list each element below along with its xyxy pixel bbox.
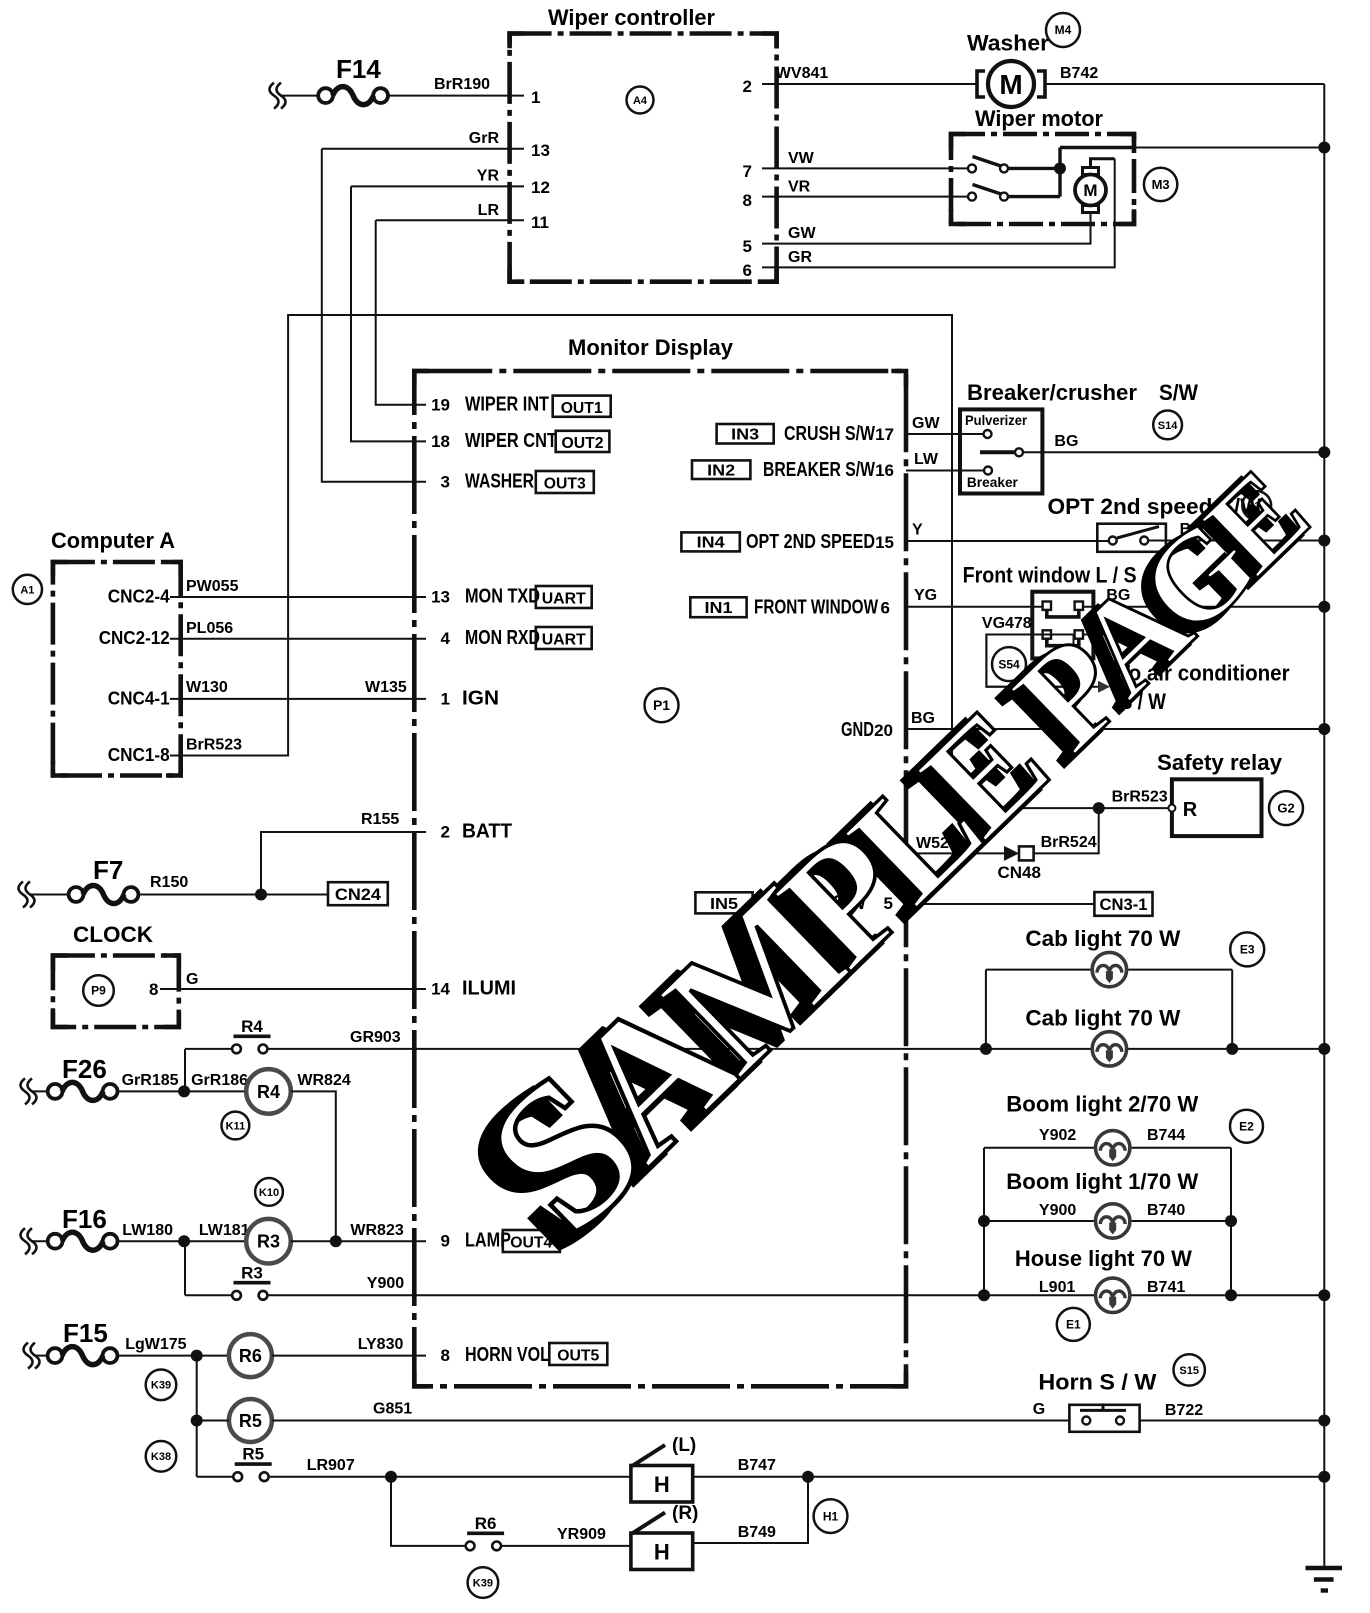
junction front window branch — [1161, 601, 1173, 613]
pin 20 GND — [841, 719, 893, 741]
junction LR907 — [385, 1471, 397, 1483]
svg-text:Cab light 70 W: Cab light 70 W — [1025, 926, 1180, 951]
svg-text:UART: UART — [542, 632, 586, 649]
terminal box UART txd — [536, 586, 592, 608]
wire wiper motor to trunk — [1134, 147, 1324, 149]
svg-text:IGN: IGN — [462, 687, 499, 709]
junction trunk front window — [1318, 601, 1330, 613]
svg-text:OUT5: OUT5 — [557, 1348, 599, 1365]
pin 9 LAMP — [441, 1230, 511, 1252]
wiper motor switch lower contacts — [968, 185, 1008, 201]
svg-text:G2: G2 — [1277, 801, 1294, 816]
svg-text:7: 7 — [743, 162, 752, 181]
svg-text:R6: R6 — [239, 1346, 262, 1366]
relay R3 — [246, 1219, 291, 1264]
svg-text:K10: K10 — [259, 1187, 279, 1199]
lamp cab light lower — [1092, 1032, 1126, 1066]
svg-text:K11: K11 — [226, 1120, 246, 1132]
wire BG gnd to trunk — [906, 728, 1324, 730]
wiper controller box A4 — [510, 34, 777, 282]
relay contact R3 — [232, 1263, 270, 1299]
svg-text:Boom light 1/70 W: Boom light 1/70 W — [1006, 1169, 1198, 1194]
designator circle K38 — [146, 1441, 177, 1472]
svg-text:Pulverizer: Pulverizer — [965, 412, 1027, 428]
wire boom light 1 — [984, 1220, 1231, 1222]
svg-text:B740: B740 — [1147, 1202, 1185, 1219]
cab light rails — [986, 970, 1232, 1049]
wire wiper switch common — [1008, 148, 1134, 197]
junction trunk gnd — [1318, 723, 1330, 735]
svg-text:2: 2 — [743, 77, 752, 96]
terminal box OUT4 — [503, 1230, 560, 1252]
designator circle K39 lower — [468, 1567, 499, 1598]
svg-text:LgW175: LgW175 — [125, 1336, 186, 1353]
wire G851 R5 to horn switch — [272, 1420, 1070, 1422]
svg-text:Y900: Y900 — [1039, 1202, 1076, 1219]
svg-text:LW181: LW181 — [199, 1222, 250, 1239]
svg-text:15: 15 — [875, 533, 894, 552]
svg-text:R3: R3 — [257, 1232, 280, 1252]
wire R5 feed — [197, 1420, 229, 1422]
wire WR824 R4 to WR823 node — [291, 1091, 336, 1241]
svg-text:(R): (R) — [672, 1503, 698, 1524]
svg-text:13: 13 — [531, 141, 550, 160]
svg-text:W135: W135 — [365, 679, 407, 696]
wire LgW525 HOUR to diode — [906, 852, 1004, 854]
svg-text:6: 6 — [881, 599, 890, 618]
pin 3 WASHER — [441, 470, 535, 492]
junction cab rail right — [1226, 1043, 1238, 1055]
svg-text:S14: S14 — [1158, 420, 1178, 432]
svg-text:GND: GND — [841, 719, 874, 741]
wire PW055 CNC2-4 to MON TXD — [170, 596, 426, 598]
svg-text:YR909: YR909 — [557, 1526, 606, 1543]
svg-text:14: 14 — [431, 980, 450, 999]
wire BrR523 CNC1-8 to safety relay — [170, 315, 1168, 808]
svg-text:S/W: S/W — [1159, 380, 1198, 405]
svg-text:OUT1: OUT1 — [561, 400, 603, 417]
junction boom rail left — [978, 1215, 990, 1227]
svg-text:CNC1-8: CNC1-8 — [108, 745, 170, 765]
wire YR vertical to monitor pin 18 — [351, 186, 426, 441]
svg-text:R4: R4 — [257, 1082, 280, 1102]
svg-text:(L): (L) — [672, 1435, 696, 1456]
pin 13 MON TXD — [431, 586, 540, 608]
svg-text:R5: R5 — [239, 1411, 262, 1431]
svg-text:8: 8 — [743, 191, 752, 210]
relay R5 — [229, 1399, 272, 1442]
svg-text:WR823: WR823 — [350, 1222, 403, 1239]
junction house rail left — [978, 1289, 990, 1301]
svg-text:YR: YR — [477, 168, 500, 185]
svg-text:Y900: Y900 — [367, 1275, 404, 1292]
svg-text:GrR: GrR — [469, 130, 500, 147]
svg-text:3: 3 — [441, 472, 450, 491]
svg-text:M4: M4 — [1055, 23, 1072, 37]
diode CN48 — [1004, 846, 1034, 861]
svg-text:WR824: WR824 — [297, 1072, 350, 1089]
svg-text:IN2: IN2 — [707, 463, 735, 480]
svg-text:M: M — [1083, 181, 1097, 200]
wire GrR pin 13 — [322, 148, 524, 150]
svg-text:K39: K39 — [151, 1380, 171, 1392]
wire Y opt to switch — [906, 540, 1109, 542]
svg-text:OUT3: OUT3 — [544, 476, 586, 493]
wire LR907 R5 contact to horn L — [269, 1476, 631, 1478]
svg-text:UART: UART — [542, 591, 586, 608]
svg-text:F7: F7 — [93, 855, 123, 885]
svg-text:8: 8 — [441, 1346, 450, 1365]
svg-text:G: G — [1033, 1401, 1045, 1418]
svg-text:WASHER: WASHER — [465, 470, 534, 492]
svg-text:H: H — [654, 1540, 670, 1565]
pin 1 IGN — [441, 687, 499, 709]
svg-text:18: 18 — [431, 432, 450, 451]
wire F15 vertical — [196, 1356, 198, 1477]
svg-text:R5: R5 — [242, 1445, 264, 1464]
svg-text:HORN VOL: HORN VOL — [465, 1344, 550, 1366]
svg-text:LW180: LW180 — [122, 1222, 173, 1239]
computer A box — [53, 562, 181, 776]
connector CN3-1 — [1094, 892, 1152, 916]
terminal box OUT3 — [536, 471, 594, 493]
designator circle S15 horn — [1174, 1354, 1205, 1385]
designator circle S54 — [992, 647, 1026, 681]
wire YR pin 12 — [351, 185, 524, 187]
terminal box OUT5 — [549, 1343, 607, 1365]
svg-text:Washer: Washer — [967, 31, 1049, 56]
svg-text:P1: P1 — [653, 697, 670, 713]
horn H (L) — [631, 1435, 696, 1502]
junction boom rail right — [1225, 1215, 1237, 1227]
svg-text:S15: S15 — [1179, 1365, 1199, 1377]
wire GrR185 — [117, 1090, 246, 1092]
svg-text:1: 1 — [531, 88, 540, 107]
clock box P9 — [53, 956, 179, 1028]
designator circle M4 — [1046, 13, 1080, 47]
svg-text:House light 70 W: House light 70 W — [1015, 1246, 1192, 1271]
pin 18 WIPER CNT — [431, 430, 557, 452]
svg-text:LR: LR — [478, 202, 500, 219]
svg-text:12: 12 — [531, 178, 550, 197]
svg-text:CNC4-1: CNC4-1 — [108, 688, 170, 708]
designator circle E2 — [1230, 1110, 1263, 1143]
wire cab light upper — [986, 969, 1232, 971]
fuse F7 — [19, 855, 139, 908]
svg-text:Wiper controller: Wiper controller — [548, 5, 715, 30]
svg-text:Breaker/crusher: Breaker/crusher — [967, 380, 1137, 405]
wire motor top lead — [1091, 159, 1115, 168]
wire GR pin 6 to wiper motor — [762, 159, 1115, 268]
junction wiper motor — [1054, 162, 1066, 174]
pin 17 CRUSH SW — [784, 423, 894, 445]
svg-text:PL056: PL056 — [186, 620, 233, 637]
svg-text:L901: L901 — [1039, 1279, 1076, 1296]
front window limit switch box — [1032, 592, 1093, 659]
wire W130 W135 CNC4-1 to IGN — [170, 698, 426, 700]
arrow to air conditioner — [1098, 681, 1110, 693]
wire VW update to CN3-1 — [906, 903, 1094, 905]
svg-text:WV841: WV841 — [776, 65, 829, 82]
watermark SAMPLE PAGE — [427, 388, 1348, 1290]
wire opt switch to trunk — [1148, 540, 1324, 542]
svg-text:CRUSH S/W: CRUSH S/W — [784, 423, 875, 445]
svg-text:CNC2-12: CNC2-12 — [99, 628, 170, 648]
relay R4 — [246, 1069, 291, 1114]
svg-text:IN3: IN3 — [731, 427, 759, 444]
horn H (R) — [631, 1503, 698, 1570]
svg-text:K38: K38 — [151, 1451, 171, 1463]
junction trunk breaker — [1318, 446, 1330, 458]
designator circle S15 opt — [1242, 491, 1271, 520]
svg-text:OUT2: OUT2 — [562, 435, 604, 452]
pin 8 HORN VOL — [441, 1344, 550, 1366]
junction LW181 R3 — [178, 1235, 190, 1247]
junction cab rail left — [980, 1043, 992, 1055]
wiper motor switch upper contacts — [968, 157, 1008, 173]
svg-text:Wiper motor: Wiper motor — [975, 106, 1103, 131]
lamp cab light upper — [1092, 952, 1126, 986]
terminal box IN4 — [681, 532, 739, 551]
wire R3 contact left — [185, 1294, 232, 1296]
svg-text:M3: M3 — [1152, 177, 1170, 192]
svg-text:R150: R150 — [150, 874, 188, 891]
terminal box IN3 — [717, 424, 774, 444]
wire VW pin 7 to wiper motor switch — [762, 167, 968, 169]
air conditioner switch enclosure — [986, 635, 1073, 687]
svg-text:GW: GW — [912, 415, 940, 432]
wire LW181 down to R3 contact — [184, 1241, 186, 1295]
svg-text:Computer A: Computer A — [51, 528, 175, 553]
svg-text:A1: A1 — [20, 584, 34, 596]
wire GW crush to breaker box — [906, 433, 984, 435]
boom light rails — [984, 1148, 1231, 1296]
svg-text:13: 13 — [431, 588, 450, 607]
svg-text:1: 1 — [441, 689, 450, 708]
svg-text:4: 4 — [441, 629, 451, 648]
svg-text:CLOCK: CLOCK — [73, 922, 153, 947]
connector CN24 — [328, 882, 388, 905]
svg-text:Horn S / W: Horn S / W — [1038, 1370, 1156, 1395]
junction trunk B722 — [1318, 1415, 1330, 1427]
lamp boom light 1 — [1096, 1204, 1130, 1238]
fuse F15 — [24, 1318, 118, 1369]
wire BG front window to trunk — [1083, 606, 1324, 608]
relay contact R6 — [466, 1514, 504, 1550]
svg-text:E3: E3 — [1240, 943, 1255, 957]
designator circle A4 — [627, 87, 654, 114]
junction safety relay — [1093, 802, 1105, 814]
wiper motor box M3 — [951, 134, 1134, 224]
pin 15 OPT 2ND SPEED — [746, 531, 894, 553]
pin 5 Update SW — [769, 892, 893, 914]
junction R150 R155 — [255, 889, 267, 901]
terminal box IN2 — [692, 460, 750, 479]
terminal box UART rxd — [536, 627, 592, 649]
svg-text:F15: F15 — [63, 1318, 108, 1348]
wire LR907 branch down to R6 contact — [391, 1477, 466, 1546]
svg-text:9: 9 — [441, 1232, 450, 1251]
wire LY830 R6 to HORN VOL — [272, 1355, 426, 1357]
pin 19 WIPER INT — [431, 394, 549, 416]
wire GR903 R4 contact to cab lights and trunk — [185, 1049, 1324, 1092]
wire YG front window — [906, 606, 1043, 608]
relay contact R4 — [232, 1017, 270, 1053]
svg-text:PW055: PW055 — [186, 578, 239, 595]
designator circle A1 — [13, 575, 42, 604]
svg-text:11: 11 — [531, 213, 549, 232]
svg-text:GW: GW — [788, 225, 816, 242]
junction trunk Y900 — [1318, 1289, 1330, 1301]
wire Y900 R3 contact to house light and trunk — [268, 1294, 1325, 1296]
pin 4 MON RXD — [441, 627, 540, 649]
wire LR vertical to monitor pin 19 — [376, 220, 426, 404]
svg-text:OPT 2ND SPEED: OPT 2ND SPEED — [746, 531, 875, 553]
wire B747 horn L to trunk — [693, 1476, 1325, 1478]
fuse F14 — [270, 54, 389, 109]
wire BG breaker to trunk — [1023, 451, 1324, 453]
wire front window lower to branch — [1083, 607, 1167, 635]
designator circle K10 — [255, 1178, 283, 1206]
svg-text:BREAKER S/W: BREAKER S/W — [763, 459, 875, 481]
horn switch S15 — [1069, 1403, 1139, 1431]
svg-text:2: 2 — [441, 823, 450, 842]
junction trunk opt — [1318, 535, 1330, 547]
junction B747 — [802, 1471, 814, 1483]
svg-text:LAMP: LAMP — [465, 1230, 511, 1252]
svg-text:WIPER INT: WIPER INT — [465, 394, 549, 416]
svg-text:GrR185: GrR185 — [122, 1072, 179, 1089]
junction trunk GR903 — [1318, 1043, 1330, 1055]
svg-text:R6: R6 — [475, 1514, 497, 1533]
designator circle K39 — [146, 1370, 177, 1401]
terminal box OUT1 — [553, 396, 611, 417]
relay R6 — [229, 1334, 272, 1377]
svg-text:WIPER CNT: WIPER CNT — [465, 430, 557, 452]
svg-text:Safety relay: Safety relay — [1157, 750, 1283, 775]
pin 14 ILUMI — [431, 978, 516, 1000]
svg-text:BrR523: BrR523 — [186, 737, 242, 754]
svg-text:R155: R155 — [361, 811, 399, 828]
svg-text:BATT: BATT — [462, 821, 512, 843]
svg-text:H1: H1 — [823, 1509, 839, 1523]
svg-text:FRONT WINDOW: FRONT WINDOW — [754, 597, 878, 619]
safety relay box R — [1168, 779, 1261, 836]
svg-text:YG: YG — [914, 587, 937, 604]
svg-text:GrR186: GrR186 — [191, 1072, 248, 1089]
svg-text:B749: B749 — [738, 1524, 776, 1541]
designator circle E3 — [1230, 932, 1264, 966]
wire LW breaker to breaker box — [906, 470, 984, 472]
wire WV841 pin 2 to washer motor — [762, 83, 976, 85]
svg-text:LR907: LR907 — [307, 1457, 355, 1474]
svg-text:B744: B744 — [1147, 1127, 1185, 1144]
svg-text:ILUMI: ILUMI — [462, 978, 516, 1000]
junction GrR185 R4 — [178, 1085, 190, 1097]
svg-text:MON TXD: MON TXD — [465, 586, 540, 608]
wire B749 horn R to B747 — [693, 1477, 808, 1543]
lamp house light — [1096, 1278, 1130, 1312]
ground symbol — [1306, 1568, 1343, 1591]
svg-text:16: 16 — [875, 461, 894, 480]
designator circle M3 — [1144, 168, 1177, 201]
svg-text:Breaker: Breaker — [967, 474, 1019, 490]
designator circle S14 — [1153, 411, 1182, 440]
monitor display box P1 — [414, 371, 906, 1386]
svg-text:H: H — [654, 1472, 670, 1497]
svg-text:K39: K39 — [473, 1577, 493, 1589]
opt 2nd speed switch — [1097, 524, 1166, 552]
svg-text:19: 19 — [431, 396, 450, 415]
svg-text:R3: R3 — [241, 1263, 263, 1282]
svg-text:CN3-1: CN3-1 — [1100, 895, 1148, 914]
title Breaker/crusher S/W — [967, 380, 1198, 405]
svg-text:B722: B722 — [1165, 1402, 1203, 1419]
svg-text:17: 17 — [875, 425, 894, 444]
wire PL056 CNC2-12 to MON RXD — [170, 638, 426, 640]
svg-text:B741: B741 — [1147, 1279, 1185, 1296]
svg-text:E2: E2 — [1239, 1119, 1254, 1133]
svg-text:LW: LW — [914, 451, 939, 468]
svg-text:GR903: GR903 — [350, 1029, 401, 1046]
svg-text:8: 8 — [149, 980, 158, 999]
wire VR pin 8 to wiper motor switch — [762, 196, 968, 198]
designator circle K11 — [222, 1112, 250, 1140]
svg-text:CNC2-4: CNC2-4 — [108, 587, 170, 607]
wire VG478 to air conditioner — [986, 635, 1100, 687]
wire GrR vertical to monitor pin 3 — [322, 149, 426, 482]
wire R150 F7 to CN24 — [139, 894, 328, 896]
terminal box IN1 — [690, 597, 746, 617]
svg-text:IN1: IN1 — [705, 600, 733, 617]
wire LgW175 — [117, 1355, 229, 1357]
svg-text:MON RXD: MON RXD — [465, 627, 540, 649]
svg-text:B742: B742 — [1060, 65, 1098, 82]
junction LgW175 — [191, 1350, 203, 1362]
svg-text:F14: F14 — [336, 54, 381, 84]
svg-text:G851: G851 — [373, 1401, 412, 1418]
svg-text:R4: R4 — [241, 1017, 263, 1036]
svg-text:G: G — [186, 971, 198, 988]
pin 2 BATT — [441, 821, 512, 843]
svg-text:6: 6 — [743, 261, 752, 280]
junction WR823 — [330, 1235, 342, 1247]
svg-text:R: R — [1183, 799, 1198, 821]
fuse F16 — [21, 1204, 118, 1254]
wire BrR524 branch — [1034, 808, 1099, 853]
designator circle E1 — [1057, 1308, 1090, 1341]
svg-text:F16: F16 — [62, 1204, 107, 1234]
wire G clock to ILUMI — [160, 988, 426, 990]
svg-text:B747: B747 — [738, 1457, 776, 1474]
wire LW180 — [117, 1240, 246, 1242]
svg-text:Y: Y — [912, 522, 923, 539]
wire B742 washer to right trunk — [1046, 83, 1324, 85]
wire boom light 2 — [984, 1147, 1231, 1149]
svg-text:LY830: LY830 — [358, 1336, 404, 1353]
junction house rail right — [1225, 1289, 1237, 1301]
breaker crusher switch box S14 — [960, 409, 1042, 493]
designator circle H1 — [814, 1499, 848, 1533]
svg-text:BrR190: BrR190 — [434, 76, 490, 93]
svg-text:A4: A4 — [633, 95, 648, 107]
junction R5 feed — [191, 1415, 203, 1427]
pin 16 BREAKER SW — [763, 459, 894, 481]
svg-text:5: 5 — [743, 237, 752, 256]
svg-text:Y902: Y902 — [1039, 1127, 1076, 1144]
svg-text:BG: BG — [1054, 433, 1078, 450]
svg-text:GR: GR — [788, 249, 812, 266]
